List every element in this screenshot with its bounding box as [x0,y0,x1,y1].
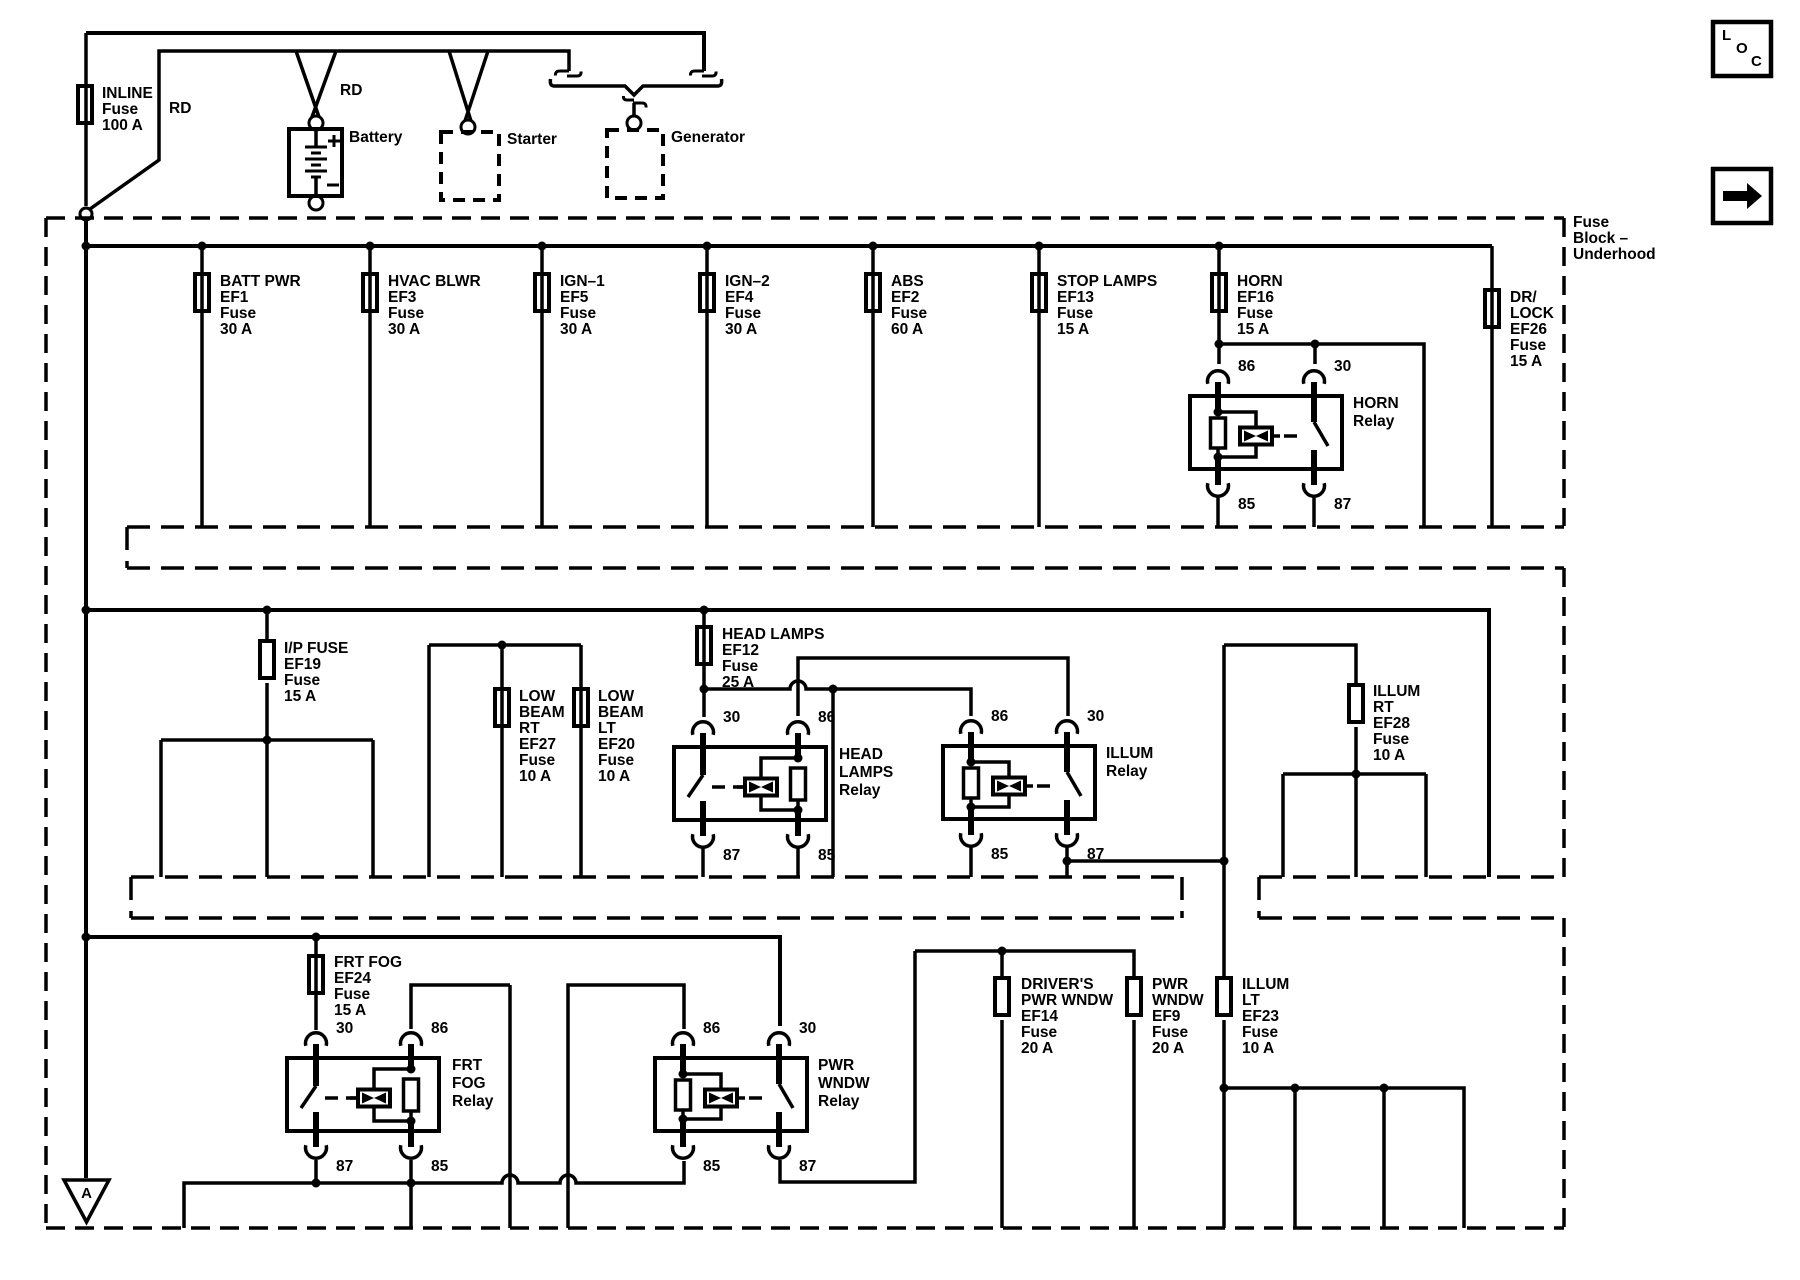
wire - head lamps relay 87 to bus [701,848,705,877]
svg-text:ILLUM: ILLUM [1242,976,1289,993]
svg-text:30: 30 [1334,358,1351,375]
svg-text:I/P FUSE: I/P FUSE [284,640,348,657]
relay ILLUM coil [968,732,974,762]
svg-text:RD: RD [169,100,191,117]
svg-text:Fuse: Fuse [388,305,425,322]
wire - illum rt distribution [1283,727,1426,877]
svg-text:30: 30 [336,1020,353,1037]
relay HEAD LAMPS switch [700,733,706,775]
svg-text:Generator: Generator [671,129,745,146]
relay HORN pin 87 connector [1304,483,1325,496]
relay PWR WNDW box [655,1058,807,1131]
relay HEAD LAMPS pin 30 connector [693,722,714,735]
svg-text:PWR: PWR [1152,976,1188,993]
svg-text:ILLUM: ILLUM [1373,683,1420,700]
svg-text:30 A: 30 A [388,321,420,338]
svg-text:WNDW: WNDW [1152,992,1204,1009]
svg-text:86: 86 [991,708,1009,725]
svg-text:Fuse: Fuse [722,658,759,675]
arrow icon [1713,169,1771,223]
wire - main bus 1 [86,244,1492,248]
svg-text:FRT FOG: FRT FOG [334,954,402,971]
svg-text:87: 87 [723,847,740,864]
svg-text:Fuse: Fuse [1242,1024,1279,1041]
svg-text:10 A: 10 A [519,768,551,785]
svg-text:BEAM: BEAM [519,704,565,721]
relay PWR WNDW coil [680,1044,686,1074]
svg-text:Fuse: Fuse [1237,305,1274,322]
fuse EF16 (HORN 15 A) [1215,242,1224,251]
svg-text:86: 86 [1238,358,1256,375]
relay PWR WNDW suppression loop [683,1074,721,1119]
battery [289,129,342,196]
svg-text:RD: RD [340,82,362,99]
svg-text:EF2: EF2 [891,289,919,306]
wire - main bus 3 [86,937,780,1026]
starter terminal [461,120,475,134]
relay FRT FOG pin 85 connector [401,1145,422,1158]
svg-text:EF26: EF26 [1510,321,1547,338]
svg-text:BEAM: BEAM [598,704,644,721]
svg-text:EF20: EF20 [598,736,635,753]
wire - drop to bus bar 2 [831,689,835,877]
relay HORN coil [1215,382,1221,412]
svg-text:Relay: Relay [452,1093,494,1110]
battery B- terminal [309,196,323,210]
svg-text:85: 85 [703,1158,721,1175]
svg-text:RT: RT [519,720,540,737]
wire - illum lt distribution comb [1224,1020,1464,1228]
wire - EF12 output to illum relay 86 [704,681,971,716]
svg-text:EF27: EF27 [519,736,556,753]
svg-text:Fuse: Fuse [1373,731,1410,748]
wire - horn relay feed [1219,344,1424,527]
svg-text:Fuse: Fuse [284,672,321,689]
svg-text:Underhood: Underhood [1573,246,1656,263]
wire - pwr wndw relay 86 feed [568,985,684,1228]
wire - head lamps relay 85 to bus [796,848,800,877]
inline fuse (INLINE Fuse 100 A) with feed rail [84,33,88,206]
relay HEAD LAMPS box [674,747,826,820]
svg-text:PWR: PWR [818,1057,854,1074]
LOC icon [1713,22,1771,76]
svg-text:LOCK: LOCK [1510,305,1555,322]
wire - illum relay 87 output [1065,847,1069,877]
svg-text:60 A: 60 A [891,321,923,338]
relay HEAD LAMPS coil [795,733,801,758]
relay PWR WNDW X-box [705,1090,737,1107]
svg-text:87: 87 [799,1158,816,1175]
relay ILLUM pin 87 connector [1057,833,1078,846]
svg-text:86: 86 [703,1020,721,1037]
wire - pwr wndw relay 87 output [780,951,915,1182]
generator (dashed box) [607,130,663,198]
svg-text:L: L [1722,27,1731,44]
relay PWR WNDW switch [776,1044,782,1084]
fuse EF28 (ILLUM RT 10 A) [1349,685,1363,722]
wire - horn relay 85 to bus [1216,497,1220,527]
svg-text:A: A [81,1185,92,1202]
svg-text:Fuse: Fuse [1510,337,1547,354]
svg-text:EF16: EF16 [1237,289,1274,306]
relay ILLUM pin 85 connector [961,833,982,846]
svg-text:FOG: FOG [452,1075,486,1092]
svg-text:C: C [1751,53,1762,70]
svg-text:85: 85 [431,1158,449,1175]
fuse EF14 (DRIVER'S PWR WNDW 20 A) [1000,951,1004,1228]
svg-text:BATT PWR: BATT PWR [220,273,301,290]
svg-text:30 A: 30 A [220,321,252,338]
svg-text:Fuse: Fuse [1152,1024,1189,1041]
relay HEAD LAMPS X-box [737,785,745,789]
svg-text:Relay: Relay [1353,413,1395,430]
svg-text:IGN–1: IGN–1 [560,273,605,290]
fuse EF1 (BATT PWR 30 A) [198,242,207,251]
svg-text:EF1: EF1 [220,289,249,306]
svg-text:EF13: EF13 [1057,289,1094,306]
svg-text:ILLUM: ILLUM [1106,745,1153,762]
svg-text:20 A: 20 A [1152,1040,1184,1057]
svg-text:15 A: 15 A [284,688,316,705]
relay HEAD LAMPS pin 85 connector [788,834,809,847]
svg-text:15 A: 15 A [1510,353,1542,370]
fuse EF27 (LOW BEAM RT 10 A) [500,645,504,877]
svg-text:EF24: EF24 [334,970,371,987]
wire - I/P fuse distribution [161,683,373,877]
fuse EF2 (ABS 60 A) [869,242,878,251]
relay PWR WNDW pin 86 connector [673,1033,694,1046]
svg-text:O: O [1736,40,1748,57]
svg-text:30: 30 [799,1020,816,1037]
connector hook pair (left) [555,71,569,76]
wire - frt fog relay 86 feed [411,985,510,1029]
svg-text:EF9: EF9 [1152,1008,1181,1025]
svg-text:Relay: Relay [1106,763,1148,780]
svg-text:Fuse: Fuse [1573,214,1610,231]
svg-text:30: 30 [1087,708,1104,725]
svg-text:15 A: 15 A [334,1002,366,1019]
svg-text:LAMPS: LAMPS [839,764,893,781]
svg-text:EF19: EF19 [284,656,321,673]
svg-text:LT: LT [598,720,616,737]
wire - window fuse hanger [915,951,1134,978]
svg-text:Fuse: Fuse [1021,1024,1058,1041]
relay FRT FOG suppression loop [374,1069,411,1121]
relay HEAD LAMPS pin 86 connector [788,722,809,735]
svg-text:30 A: 30 A [560,321,592,338]
svg-text:85: 85 [991,846,1009,863]
relay HORN pin 30 connector [1304,371,1325,384]
svg-text:Relay: Relay [818,1093,860,1110]
svg-text:HVAC BLWR: HVAC BLWR [388,273,481,290]
relay HEAD LAMPS suppression loop [761,758,798,810]
ground reference A (triangle) [64,1180,109,1222]
fuse EF19 (I/P FUSE 15 A) [263,606,272,615]
fuse EF23 (ILLUM LT 10 A) [1217,978,1231,1015]
battery feed V-wires (RD) [296,51,336,117]
relay FRT FOG switch [313,1044,319,1086]
svg-text:20 A: 20 A [1021,1040,1053,1057]
relay PWR WNDW linkage [749,1096,770,1100]
svg-text:87: 87 [1334,496,1351,513]
relay ILLUM pin 86 connector [961,721,982,734]
connector hook pair (right) [690,71,704,76]
svg-text:EF28: EF28 [1373,715,1410,732]
svg-text:Fuse: Fuse [220,305,257,322]
svg-text:85: 85 [1238,496,1256,513]
svg-text:Fuse: Fuse [334,986,371,1003]
svg-text:100 A: 100 A [102,117,143,134]
battery B+ terminal [309,116,323,130]
svg-text:EF12: EF12 [722,642,759,659]
svg-text:LOW: LOW [519,688,556,705]
relay FRT FOG box [287,1058,439,1131]
svg-text:DR/: DR/ [1510,289,1537,306]
svg-text:Starter: Starter [507,131,557,148]
generator terminal [627,116,641,130]
svg-text:87: 87 [336,1158,353,1175]
wire RD - second feed wire [90,51,569,209]
relay ILLUM switch [1064,732,1070,772]
bus bar 1 (dashed) [127,525,1564,529]
relay HORN pin 85 connector [1208,483,1229,496]
fuse EF5 (IGN–1 30 A) [538,242,547,251]
wire - frt fog relay 87/85 outputs [314,1160,318,1183]
svg-text:IGN–2: IGN–2 [725,273,770,290]
fuse EF4 (IGN–2 30 A) [703,242,712,251]
svg-text:10 A: 10 A [598,768,630,785]
svg-text:15 A: 15 A [1057,321,1089,338]
svg-text:EF3: EF3 [388,289,417,306]
svg-text:10 A: 10 A [1242,1040,1274,1057]
junction node (splice) [80,208,92,220]
svg-text:FRT: FRT [452,1057,483,1074]
svg-text:86: 86 [431,1020,449,1037]
fuse EF24 (FRT FOG 15 A) [312,933,321,942]
relay ILLUM suppression loop [971,762,1009,807]
relay FRT FOG linkage [325,1096,357,1100]
relay FRT FOG pin 30 connector [306,1033,327,1046]
relay HORN box [1190,396,1342,469]
wire - illum relay 85 to bus [969,847,973,877]
svg-text:LOW: LOW [598,688,635,705]
wire RD - top feed wire [86,33,704,71]
relay FRT FOG coil [408,1044,414,1069]
svg-text:EF14: EF14 [1021,1008,1058,1025]
svg-text:Battery: Battery [349,129,403,146]
splice bus brace [550,79,554,86]
svg-text:30: 30 [723,709,740,726]
svg-text:30 A: 30 A [725,321,757,338]
svg-text:DRIVER'S: DRIVER'S [1021,976,1094,993]
fuse EF9 (PWR WNDW 20 A) [1132,1020,1136,1228]
fuse EF13 (STOP LAMPS 15 A) [1035,242,1044,251]
svg-text:STOP LAMPS: STOP LAMPS [1057,273,1157,290]
svg-text:EF4: EF4 [725,289,754,306]
svg-text:Block –: Block – [1573,230,1629,247]
starter (dashed box) [441,132,499,200]
relay HORN pin 86 connector [1208,371,1229,384]
wire - main bus 2 [86,610,1489,877]
svg-text:HEAD LAMPS: HEAD LAMPS [722,626,824,643]
relay ILLUM box [943,746,1095,819]
svg-text:Fuse: Fuse [598,752,635,769]
svg-text:HORN: HORN [1237,273,1283,290]
svg-text:10 A: 10 A [1373,747,1405,764]
bus bar 3 (dashed) [1259,875,1564,879]
svg-text:Fuse: Fuse [1057,305,1094,322]
relay PWR WNDW pin 30 connector [769,1033,790,1046]
wire - head lamps relay 86 / illum relay 30 feed [798,658,1068,716]
svg-text:Relay: Relay [839,782,881,799]
relay PWR WNDW pin 87 connector [769,1145,790,1158]
svg-text:EF5: EF5 [560,289,589,306]
starter feed V-wires [449,51,488,121]
relay ILLUM pin 30 connector [1057,721,1078,734]
relay FRT FOG pin 86 connector [401,1033,422,1046]
bus bar 2 (dashed) [131,875,1182,879]
relay HEAD LAMPS linkage [712,785,744,789]
relay HEAD LAMPS pin 87 connector [693,834,714,847]
wire - low beam feeder [429,645,581,877]
svg-text:PWR WNDW: PWR WNDW [1021,992,1113,1009]
svg-text:Fuse: Fuse [725,305,762,322]
relay HORN linkage [1284,434,1305,438]
wire - left rail through fuse block [84,220,88,1178]
fuse EF26 (DR/LOCK 15 A) [1490,246,1494,526]
fuse block border (dashed) [44,218,48,1228]
wire - horn relay 87 to bus [1312,497,1316,527]
svg-text:WNDW: WNDW [818,1075,870,1092]
svg-text:RT: RT [1373,699,1394,716]
wire - illum rt/lt feeder [1224,645,1356,685]
svg-text:Fuse: Fuse [519,752,556,769]
relay HORN switch [1311,382,1317,422]
svg-text:Fuse: Fuse [560,305,597,322]
svg-text:HEAD: HEAD [839,746,883,763]
svg-text:15 A: 15 A [1237,321,1269,338]
fuse EF3 (HVAC BLWR 30 A) [366,242,375,251]
svg-text:EF23: EF23 [1242,1008,1279,1025]
relay FRT FOG pin 87 connector [306,1145,327,1158]
relay ILLUM linkage [1037,784,1058,788]
svg-text:85: 85 [818,847,836,864]
svg-text:Fuse: Fuse [891,305,928,322]
relay PWR WNDW pin 85 connector [673,1145,694,1158]
svg-text:LT: LT [1242,992,1260,1009]
fuse EF12 (HEAD LAMPS 25 A) [700,606,709,615]
svg-text:86: 86 [818,709,836,726]
relay ILLUM X-box [993,778,1025,795]
connector hook pair (center) [623,96,634,100]
svg-text:Fuse: Fuse [102,101,139,118]
relay HORN X-box [1240,428,1272,445]
relay HORN suppression loop [1218,412,1256,457]
wire - frt fog ground drop (left) [508,985,512,1228]
svg-text:HORN: HORN [1353,395,1399,412]
fuse EF20 (LOW BEAM LT 10 A) [579,645,583,877]
svg-text:INLINE: INLINE [102,85,153,102]
svg-text:ABS: ABS [891,273,924,290]
relay FRT FOG X-box [350,1096,358,1100]
